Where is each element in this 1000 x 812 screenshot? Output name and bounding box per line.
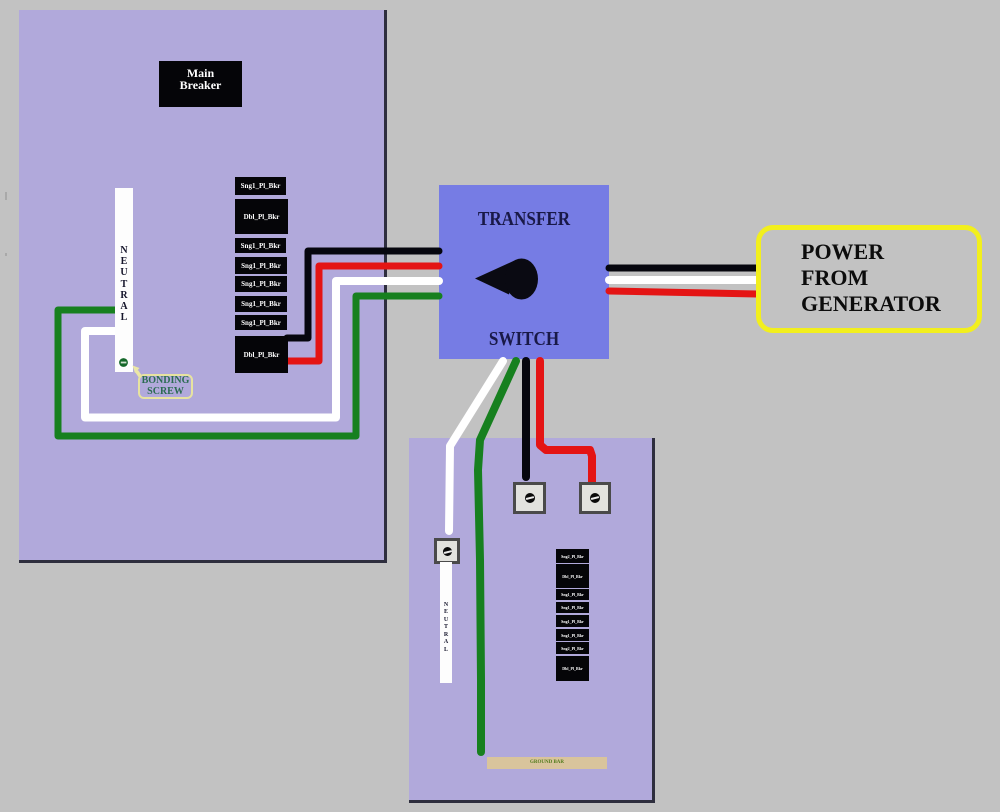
BONDING SCREW callout label: [138, 374, 193, 399]
sub panel neutral bar: [440, 562, 452, 683]
sub breaker Sng1_Pl_Bkr 3: [556, 589, 589, 600]
POWER FROM GENERATOR text: [801, 239, 991, 317]
breaker Dbl_Pl_Bkr 8: [235, 336, 288, 373]
sub breaker Sng1_Pl_Bkr 4: [556, 602, 589, 613]
wire black: transfer switch down to sub panel hot terminal: [522, 361, 530, 477]
breaker Sng1_Pl_Bkr 6: [235, 296, 287, 312]
wire white: neutral from neutral bar around main panel to transfer switch: [85, 281, 439, 418]
wire black: transfer switch to generator inlet: [609, 265, 757, 272]
stray mark 2: [5, 253, 7, 256]
breaker Sng1_Pl_Bkr 1: [235, 177, 286, 195]
sub breaker Dbl_Pl_Bkr 2: [556, 564, 589, 588]
wire white: transfer switch to generator inlet: [609, 276, 757, 284]
sub breaker Sng1_Pl_Bkr 6: [556, 629, 589, 641]
wire green: ground jumper from neutral bar around main panel to transfer switch: [58, 296, 439, 436]
BONDING SCREW callout arrow: [125, 358, 155, 384]
label SWITCH: [451, 328, 596, 351]
sub panel neutral bar lettering: [440, 602, 452, 654]
main panel neutral bar: [115, 188, 133, 372]
transfer switch rotary knob arrow: [475, 261, 515, 295]
POWER FROM GENERATOR yellow outline box: [756, 225, 982, 333]
sub breaker Sng2_Pl_Bkr 7: [556, 642, 589, 654]
sub breaker Sng1_Pl_Bkr 5: [556, 615, 589, 627]
neutral bar vertical lettering: [115, 245, 133, 323]
sub panel neutral terminal lug: [434, 538, 460, 564]
wire green: transfer switch down to sub panel ground bar: [478, 361, 516, 752]
transfer switch box: [439, 185, 609, 359]
breaker Sng1_Pl_Bkr 4: [235, 257, 287, 274]
main service panel enclosure: [19, 10, 387, 563]
breaker Sng1_Pl_Bkr 5: [235, 276, 287, 292]
label TRANSFER: [451, 208, 596, 231]
stray mark 1: [5, 192, 7, 200]
bonding screw (green) on neutral bar: [118, 357, 130, 369]
wire white: transfer switch down to sub panel neutral terminal: [449, 361, 503, 531]
Main Breaker block: [159, 61, 242, 107]
sub panel hot terminal lug 2 (red wire): [579, 482, 611, 514]
sub panel ground bar: [487, 757, 607, 769]
wire red: transfer switch down to sub panel hot terminal: [540, 361, 592, 482]
sub breaker Sng2_Pl_Bkr 1: [556, 549, 589, 563]
generator sub panel enclosure: [409, 438, 655, 803]
sub panel hot terminal lug 1 (black wire): [513, 482, 546, 514]
wire red: transfer switch to generator inlet: [609, 291, 757, 294]
breaker Sng1_Pl_Bkr 7: [235, 315, 287, 330]
sub breaker Dbl_Pl_Bkr 8: [556, 656, 589, 681]
breaker Dbl_Pl_Bkr 2: [235, 199, 288, 234]
breaker Sng1_Pl_Bkr 3: [235, 238, 286, 253]
wire black: hot from double-pole breaker to transfer switch: [287, 251, 439, 338]
wire red: hot from double-pole breaker to transfer switch: [286, 266, 439, 361]
